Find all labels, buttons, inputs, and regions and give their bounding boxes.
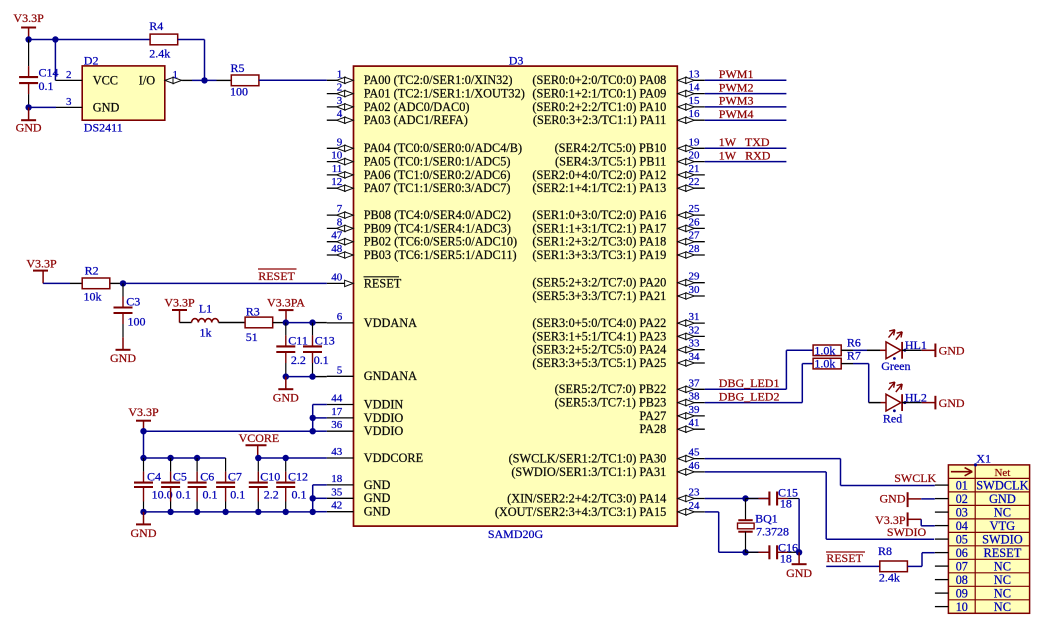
svg-text:V3.3PA: V3.3PA (267, 296, 305, 310)
wire VDDIN branch (313, 405, 327, 432)
label R2 (85, 264, 99, 278)
svg-text:Net: Net (994, 467, 1010, 479)
svg-text:28: 28 (689, 243, 701, 255)
junction dot (283, 509, 289, 515)
svg-text:(SER5:2+3:2/TC7:0) PA20: (SER5:2+3:2/TC7:0) PA20 (532, 276, 666, 290)
svg-text:PA01 (TC2:1/SER1:1/XOUT32): PA01 (TC2:1/SER1:1/XOUT32) (364, 87, 525, 101)
svg-text:(SER5:3/TC7:1) PB23: (SER5:3/TC7:1) PB23 (555, 396, 667, 410)
svg-text:V3.3P: V3.3P (875, 513, 906, 527)
ground GND (crystal) (786, 552, 812, 580)
svg-text:02: 02 (956, 492, 968, 506)
svg-text:(SWCLK/SER1:2/TC1:0) PA30: (SWCLK/SER1:2/TC1:0) PA30 (509, 452, 667, 466)
label C14 (39, 65, 59, 79)
inductor L1 (192, 319, 219, 323)
svg-text:(XOUT/SER2:3+4:3/TC3:1) PA15: (XOUT/SER2:3+4:3/TC3:1) PA15 (495, 505, 666, 519)
svg-text:46: 46 (689, 460, 701, 472)
svg-text:(SWDIO/SER1:3/TC1:1) PA31: (SWDIO/SER1:3/TC1:1) PA31 (511, 465, 666, 479)
D2 pin 2 VCC (55, 69, 118, 88)
IC D3 pin 23 (XIN/SER2:2+4:2/TC3:0) PA14 (507, 487, 705, 506)
IC D3 pin 27 (SER1:2+3:2/TC3:0) PA18 (532, 230, 704, 249)
wire R5 to pin1 (259, 79, 327, 81)
svg-text:32: 32 (689, 324, 700, 336)
svg-text:18: 18 (780, 497, 792, 511)
svg-text:(SER4:2/TC5:0) PB10: (SER4:2/TC5:0) PB10 (555, 141, 667, 155)
svg-text:51: 51 (246, 330, 258, 344)
IC D3 pin 43 VDDCORE (327, 446, 423, 465)
junction dot (222, 509, 228, 515)
label BQ1 (755, 512, 778, 526)
IC D3 pin 32 (SER3:1+5:1/TC4:1) PA23 (532, 324, 704, 343)
label 10k (84, 290, 102, 304)
svg-text:41: 41 (689, 417, 700, 429)
label R8 (878, 544, 892, 558)
junction dot (167, 455, 173, 461)
label C7 (228, 469, 242, 483)
junction dot (140, 455, 146, 461)
power flag V3.3P (VDDIO) (128, 405, 159, 431)
svg-text:07: 07 (956, 559, 968, 573)
svg-text:48: 48 (331, 243, 343, 255)
label 2.2 (291, 353, 306, 367)
svg-text:31: 31 (689, 311, 700, 323)
svg-text:09: 09 (956, 586, 968, 600)
D2 pin 1 I/O (139, 69, 182, 88)
IC D3 pin 29 (SER5:2+3:2/TC7:0) PA20 (532, 271, 704, 290)
svg-text:(SER5:2/TC7:0) PB22: (SER5:2/TC7:0) PB22 (555, 382, 667, 396)
label R4 (149, 19, 163, 33)
svg-text:SWDIO: SWDIO (887, 525, 927, 539)
junction dot (283, 373, 289, 379)
power flag V3.3PA (267, 296, 305, 323)
label 0.1 (39, 79, 54, 93)
label Red (883, 411, 902, 425)
svg-text:NC: NC (994, 505, 1011, 519)
junction dot (194, 455, 200, 461)
svg-text:30: 30 (689, 284, 701, 296)
capacitor C10 (249, 458, 268, 512)
svg-text:06: 06 (956, 546, 968, 560)
IC D3 pin 11 PA06 (TC1:0/SER0:2/ADC6) (327, 163, 511, 182)
wire R7 to HL2 (841, 364, 869, 403)
IC D3 pin 18 GND (327, 473, 391, 492)
svg-text:PWM1: PWM1 (719, 67, 754, 81)
svg-text:GND: GND (364, 478, 391, 492)
crystal BQ1 (738, 499, 755, 553)
IC D3 pin 41 PA28 (639, 417, 704, 436)
IC U-D3 body SAMD20G (354, 66, 678, 526)
junction dot (52, 36, 58, 42)
svg-text:23: 23 (689, 487, 701, 499)
svg-text:(SER1:2+3:2/TC3:0) PA18: (SER1:2+3:2/TC3:0) PA18 (532, 235, 666, 249)
svg-text:13: 13 (689, 68, 701, 80)
svg-text:GND: GND (939, 396, 965, 410)
X1 header Net (994, 467, 1010, 479)
IC D3 pin 24 (XOUT/SER2:3+4:3/TC3:1) PA15 (495, 500, 705, 519)
label L1 (199, 302, 212, 316)
capacitor C12 (276, 458, 295, 512)
X1 pin 10 NC (935, 600, 1011, 614)
svg-text:V3.3P: V3.3P (26, 257, 57, 271)
svg-text:PB09 (TC4:1/SER4:1/ADC3): PB09 (TC4:1/SER4:1/ADC3) (364, 221, 511, 235)
svg-text:V3.3P: V3.3P (128, 405, 159, 419)
label 18 (780, 552, 792, 566)
svg-text:(SER5:3+3:3/TC7:1) PA21: (SER5:3+3:3/TC7:1) PA21 (532, 289, 666, 303)
svg-text:45: 45 (689, 447, 701, 459)
label Green (881, 359, 910, 373)
svg-text:GND: GND (16, 121, 42, 135)
wire GND pins branch (313, 485, 327, 512)
X1 pin 05 SWDIO (935, 532, 1023, 546)
IC D3 pin 5 GNDANA (327, 364, 417, 383)
LED HL2 (869, 382, 965, 412)
svg-text:10: 10 (331, 150, 343, 162)
svg-text:V3.3P: V3.3P (13, 11, 44, 25)
svg-text:DS2411: DS2411 (84, 121, 123, 135)
X1 pin 09 NC (935, 586, 1011, 600)
svg-text:22: 22 (689, 176, 700, 188)
IC D3 pin 39 PA27 (639, 404, 704, 423)
svg-text:7: 7 (337, 203, 343, 215)
label 0.1 (292, 488, 307, 502)
net label DBG_LED1 (719, 376, 780, 390)
IC D3 pin 33 (SER3:2+5:2/TC5:0) PA24 (532, 338, 704, 357)
power flag V3.3P (L1) (164, 296, 195, 323)
svg-text:C13: C13 (315, 333, 335, 347)
net label 1W RXD (719, 148, 771, 162)
IC D3 pin 6 VDDANA (327, 311, 417, 330)
label R3 (246, 304, 260, 318)
svg-text:1: 1 (337, 68, 343, 80)
svg-text:42: 42 (331, 500, 342, 512)
svg-text:17: 17 (331, 406, 343, 418)
label C6 (200, 469, 214, 483)
junction dot (140, 509, 146, 515)
IC D3 pin 28 (SER1:3+3:3/TC3:1) PA19 (532, 243, 704, 262)
wire C15 to GND node (798, 499, 800, 553)
svg-text:18: 18 (780, 552, 792, 566)
IC D3 pin 36 VDDIO (327, 419, 404, 438)
svg-text:GND: GND (939, 344, 965, 358)
svg-text:3: 3 (66, 96, 72, 108)
svg-text:12: 12 (331, 176, 342, 188)
svg-text:PA00 (TC2:0/SER1:0/XIN32): PA00 (TC2:0/SER1:0/XIN32) (364, 73, 513, 87)
ground GND (caps) (131, 512, 157, 540)
svg-text:40: 40 (331, 271, 343, 283)
svg-text:VDDIO: VDDIO (364, 424, 404, 438)
svg-text:PB08 (TC4:0/SER4:0/ADC2): PB08 (TC4:0/SER4:0/ADC2) (364, 208, 511, 222)
svg-text:10: 10 (956, 600, 968, 614)
svg-text:24: 24 (689, 500, 701, 512)
wire PWM2 (705, 93, 787, 95)
IC D3 pin 22 (SER2:1+4:1/TC2:1) PA13 (532, 176, 704, 195)
IC D2 body DS2411 (82, 66, 165, 120)
svg-text:X1: X1 (976, 452, 991, 466)
svg-text:VCORE: VCORE (239, 431, 280, 445)
svg-text:PA06 (TC1:0/SER0:2/ADC6): PA06 (TC1:0/SER0:2/ADC6) (364, 168, 511, 182)
net label PWM4 (719, 107, 754, 121)
svg-text:PWM4: PWM4 (719, 107, 754, 121)
svg-text:VTG: VTG (990, 519, 1016, 533)
wire SWDIO (705, 472, 934, 539)
IC D3 pin 2 PA01 (TC2:1/SER1:1/XOUT32) (327, 82, 525, 101)
label C16 (778, 541, 798, 555)
svg-text:D3: D3 (509, 53, 524, 67)
IC D3 pin 17 VDDIO (327, 406, 404, 425)
IC D3 pin 46 (SWDIO/SER1:3/TC1:1) PA31 (511, 460, 704, 479)
wire cap bottom rail GND (144, 511, 313, 513)
svg-text:0.1: 0.1 (39, 79, 54, 93)
svg-text:NC: NC (994, 600, 1011, 614)
IC D3 pin 37 (SER5:2/TC7:0) PB22 (555, 377, 705, 396)
svg-text:VDDANA: VDDANA (364, 316, 417, 330)
svg-text:GND: GND (786, 566, 812, 580)
svg-text:2.4k: 2.4k (879, 571, 900, 585)
X1 pin 08 NC (935, 573, 1011, 587)
net label VCORE (239, 431, 280, 445)
net label DBG_LED2 (719, 389, 780, 403)
wire to R2 (43, 282, 82, 284)
connector X1 body (948, 465, 1029, 613)
svg-text:1W TXD: 1W TXD (719, 135, 770, 149)
label 0.1 (314, 353, 329, 367)
svg-text:6: 6 (337, 311, 343, 323)
svg-text:2.2: 2.2 (291, 353, 306, 367)
designator D2 (84, 54, 99, 68)
svg-text:GND: GND (273, 390, 299, 404)
wire V3.3P down to cap rail (143, 431, 145, 458)
svg-text:(SER2:0+4:0/TC2:0) PA12: (SER2:0+4:0/TC2:0) PA12 (532, 168, 666, 182)
svg-text:R3: R3 (246, 304, 260, 318)
wire pin24 to C16 (705, 512, 770, 552)
svg-text:PA05 (TC0:1/SER0:1/ADC5): PA05 (TC0:1/SER0:1/ADC5) (364, 155, 511, 169)
svg-text:01: 01 (956, 478, 968, 492)
svg-text:R4: R4 (149, 19, 163, 33)
junction dot (25, 104, 31, 110)
label C10 (260, 469, 280, 483)
svg-text:C11: C11 (288, 333, 308, 347)
svg-text:C6: C6 (200, 469, 214, 483)
svg-text:9: 9 (337, 136, 343, 148)
svg-text:100: 100 (128, 314, 146, 328)
label 2.2 (264, 488, 279, 502)
wire PWM4 (705, 119, 787, 121)
IC D3 pin 42 GND (327, 500, 391, 519)
wire cap top rail V3.3P (144, 457, 226, 459)
svg-text:NC: NC (994, 586, 1011, 600)
svg-text:(SER3:3+5:3/TC5:1) PA25: (SER3:3+5:3/TC5:1) PA25 (532, 356, 666, 370)
label C4 (147, 469, 161, 483)
label C12 (288, 469, 308, 483)
svg-text:(SER0:3+2:3/TC1:1) PA11: (SER0:3+2:3/TC1:1) PA11 (533, 113, 666, 127)
svg-text:SAMD20G: SAMD20G (488, 527, 544, 541)
svg-text:8: 8 (337, 216, 343, 228)
label 2.4k (879, 571, 900, 585)
svg-text:GND: GND (989, 492, 1016, 506)
svg-text:R5: R5 (231, 61, 245, 75)
svg-text:34: 34 (689, 351, 701, 363)
label 0.1 (176, 488, 191, 502)
X1 pin 03 NC (935, 505, 1011, 519)
svg-text:44: 44 (331, 393, 343, 405)
junction dot (310, 495, 316, 501)
svg-text:20: 20 (689, 150, 701, 162)
label HL1 (905, 338, 927, 352)
IC D3 pin 10 PA05 (TC0:1/SER0:1/ADC5) (327, 150, 511, 169)
IC D3 pin 8 PB09 (TC4:1/SER4:1/ADC3) (327, 216, 511, 235)
svg-text:V3.3P: V3.3P (164, 296, 195, 310)
svg-text:VDDCORE: VDDCORE (364, 451, 423, 465)
label 0.1 (203, 488, 218, 502)
IC D3 pin 16 (SER0:3+2:3/TC1:1) PA11 (533, 108, 705, 127)
IC D3 pin 35 GND (327, 486, 391, 505)
svg-text:1.0k: 1.0k (814, 343, 835, 357)
X1 pin 04 VTG (935, 519, 1015, 533)
svg-text:RESET: RESET (983, 546, 1021, 560)
svg-text:PB03 (TC6:1/SER5:1/ADC11): PB03 (TC6:1/SER5:1/ADC11) (364, 248, 517, 262)
capacitor C11 (276, 323, 295, 377)
wire R3 to pin6 (273, 322, 327, 324)
wire R2 to pin40 (111, 282, 327, 284)
wire PWM1 (705, 79, 787, 81)
capacitor C16 (746, 545, 800, 559)
svg-text:47: 47 (331, 230, 343, 242)
IC D3 pin 7 PB08 (TC4:0/SER4:0/ADC2) (327, 203, 511, 222)
IC D3 pin 20 (SER4:3/TC5:1) PB11 (555, 150, 705, 169)
resistor R4 (150, 34, 178, 45)
label 1k (200, 325, 212, 339)
wire V3.3P horizontal (29, 39, 151, 41)
label HL2 (905, 391, 927, 405)
svg-text:15: 15 (689, 95, 701, 107)
svg-text:GND: GND (110, 351, 136, 365)
svg-text:0.1: 0.1 (176, 488, 191, 502)
svg-text:RESET: RESET (826, 551, 863, 565)
svg-text:1: 1 (173, 69, 179, 81)
X1 pin 01 SWDCLK (935, 478, 1029, 492)
junction dot (255, 509, 261, 515)
svg-text:NC: NC (994, 573, 1011, 587)
label 100 (128, 314, 146, 328)
svg-text:(SER4:3/TC5:1) PB11: (SER4:3/TC5:1) PB11 (555, 155, 666, 169)
label C5 (173, 469, 187, 483)
IC D3 pin 44 VDDIN (327, 393, 404, 412)
ground GND (C11/C13) (273, 377, 299, 405)
label R6 (847, 335, 861, 349)
junction dot (120, 280, 126, 286)
wire V3.3P to VDDIO (144, 430, 313, 432)
wire RESET to R8 (826, 565, 880, 567)
svg-text:C14: C14 (39, 65, 59, 79)
junction dot (310, 509, 316, 515)
svg-text:PA04 (TC0:0/SER0:0/ADC4/B): PA04 (TC0:0/SER0:0/ADC4/B) (364, 141, 522, 155)
svg-text:1.0k: 1.0k (814, 357, 835, 371)
svg-text:(SER1:3+3:3/TC3:1) PA19: (SER1:3+3:3/TC3:1) PA19 (532, 248, 666, 262)
IC D3 pin 1 PA00 (TC2:0/SER1:0/XIN32) (327, 68, 513, 87)
wire VCC drop (54, 40, 56, 81)
designator D3 (509, 53, 524, 67)
svg-text:18: 18 (331, 473, 343, 485)
resistor R6 (813, 343, 841, 357)
IC D3 pin 30 (SER5:3+3:3/TC7:1) PA21 (532, 284, 704, 303)
svg-text:(SER1:1+3:1/TC2:1) PA17: (SER1:1+3:1/TC2:1) PA17 (532, 221, 666, 235)
svg-text:I/O: I/O (139, 74, 156, 88)
svg-text:39: 39 (689, 404, 701, 416)
svg-text:5: 5 (337, 364, 343, 376)
svg-text:2: 2 (337, 82, 343, 94)
svg-text:PWM3: PWM3 (719, 94, 754, 108)
svg-text:C7: C7 (228, 469, 242, 483)
svg-text:08: 08 (956, 573, 968, 587)
X1 pin 02 GND (935, 492, 1016, 506)
junction dot (283, 319, 289, 325)
ground GND (X1 pin2) (880, 492, 935, 508)
svg-text:GND: GND (364, 491, 391, 505)
designator X1 (976, 452, 991, 466)
ground GND (C3) (110, 337, 136, 365)
junction dot (309, 373, 315, 379)
label C3 (126, 295, 140, 309)
IC D3 pin 31 (SER3:0+5:0/TC4:0) PA22 (532, 311, 704, 330)
svg-text:PWM2: PWM2 (719, 80, 754, 94)
net label PWM2 (719, 80, 754, 94)
svg-text:0.1: 0.1 (314, 353, 329, 367)
svg-text:35: 35 (331, 486, 343, 498)
svg-text:C3: C3 (126, 295, 140, 309)
capacitor C6 (188, 458, 207, 512)
svg-text:R6: R6 (847, 335, 861, 349)
svg-text:(SER0:1+2:1/TC0:1) PA09: (SER0:1+2:1/TC0:1) PA09 (532, 87, 666, 101)
svg-text:19: 19 (689, 136, 701, 148)
svg-text:16: 16 (689, 108, 701, 120)
X1 pin 07 NC (935, 559, 1011, 573)
resistor R3 (245, 317, 273, 328)
LED HL1 (841, 330, 965, 360)
svg-text:RESET: RESET (258, 269, 295, 283)
ground GND (top left) (16, 107, 42, 134)
resistor R5 (231, 75, 259, 86)
value DS2411 (84, 121, 123, 135)
svg-text:(SER1:0+3:0/TC2:0) PA16: (SER1:0+3:0/TC2:0) PA16 (532, 208, 666, 222)
svg-text:SWDIO: SWDIO (982, 532, 1023, 546)
svg-text:R2: R2 (85, 264, 99, 278)
IC D3 pin 38 (SER5:3/TC7:1) PB23 (555, 391, 705, 410)
resistor R8 (880, 561, 908, 572)
svg-text:43: 43 (331, 446, 343, 458)
IC D3 pin 3 PA02 (ADC0/DAC0) (327, 95, 470, 114)
svg-text:0.1: 0.1 (292, 488, 307, 502)
wire R8 to X1 pin6 (908, 553, 935, 567)
svg-text:(XIN/SER2:2+4:2/TC3:0) PA14: (XIN/SER2:2+4:2/TC3:0) PA14 (507, 491, 666, 505)
svg-text:PA03 (ADC1/REFA): PA03 (ADC1/REFA) (364, 113, 468, 127)
svg-text:D2: D2 (84, 54, 99, 68)
svg-text:37: 37 (689, 377, 701, 389)
IC D3 pin 15 (SER0:2+2:2/TC1:0) PA10 (532, 95, 704, 114)
wire 1W RXD (705, 161, 787, 163)
svg-text:Red: Red (883, 411, 902, 425)
capacitor C4 (134, 458, 153, 512)
svg-text:C4: C4 (147, 469, 161, 483)
wire GNDANA rail (286, 376, 327, 378)
junction dot (742, 549, 748, 555)
D2 pin 3 GND (56, 96, 119, 115)
label R5 (231, 61, 245, 75)
svg-text:NC: NC (994, 559, 1011, 573)
svg-text:36: 36 (331, 419, 343, 431)
IC D3 pin 25 (SER1:0+3:0/TC2:0) PA16 (532, 203, 704, 222)
svg-text:DBG_LED2: DBG_LED2 (719, 389, 780, 403)
svg-text:2.4k: 2.4k (149, 47, 170, 61)
svg-text:0.1: 0.1 (230, 488, 245, 502)
